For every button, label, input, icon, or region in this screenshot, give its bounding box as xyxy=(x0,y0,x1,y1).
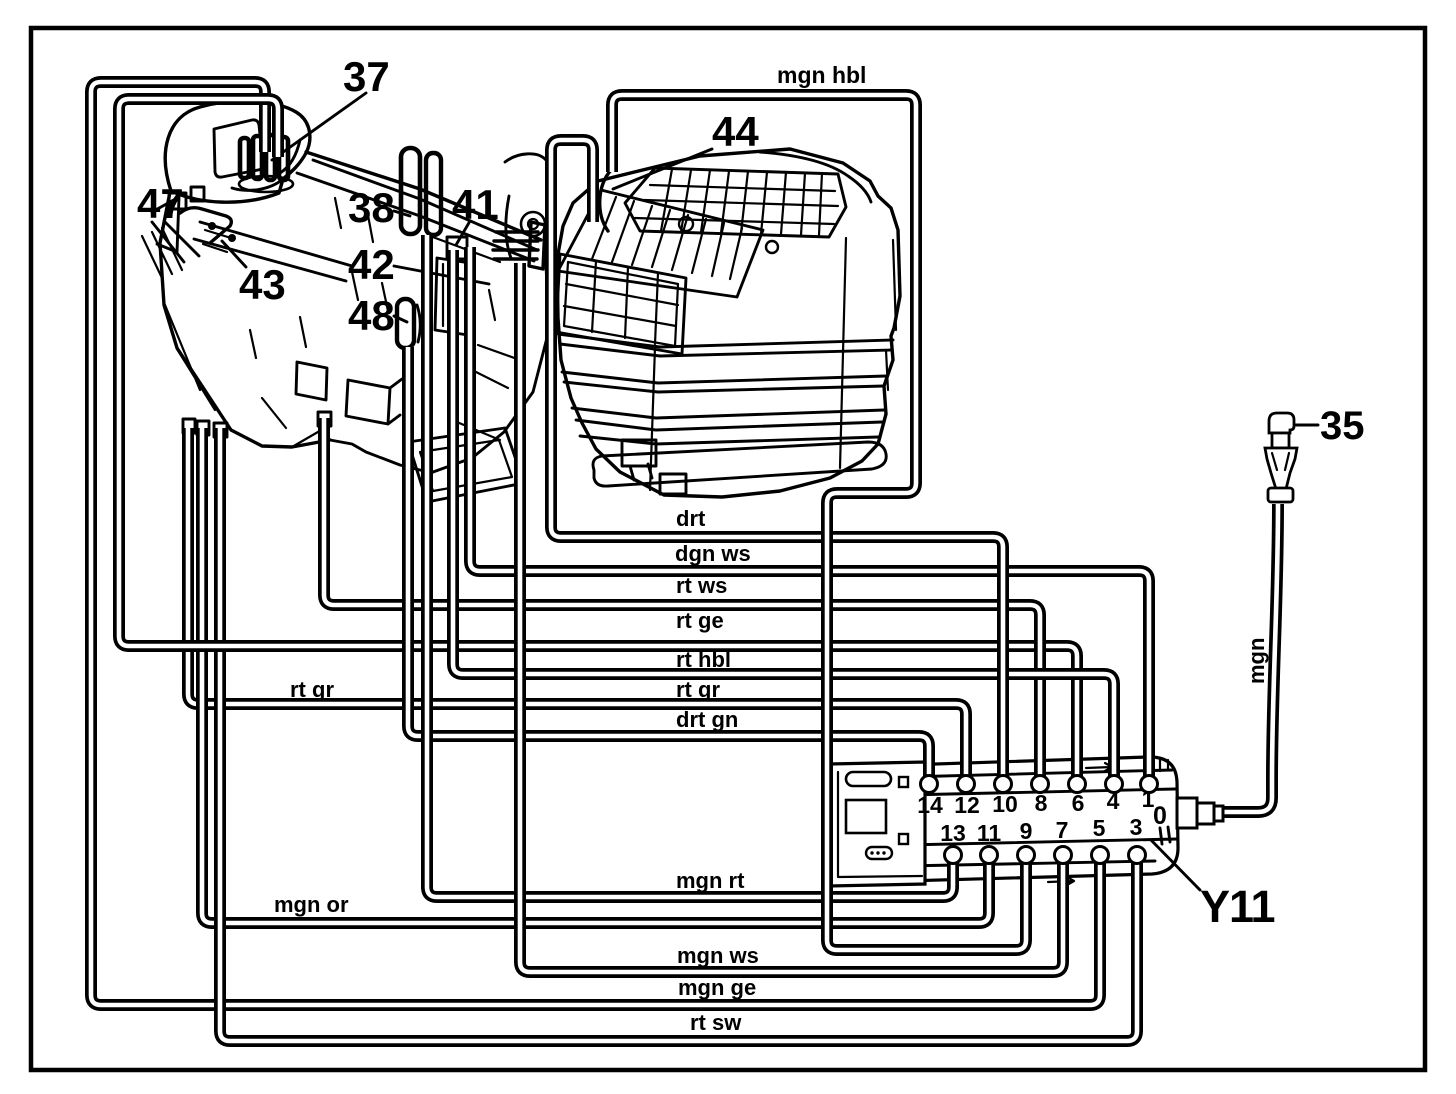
pod 42 (stacked plates) xyxy=(493,232,538,259)
body right contour xyxy=(433,244,549,472)
leader 44 xyxy=(613,149,712,189)
wire drt: AC hook at x=593 up over arc to x=551, down to row y=537, to port 10 xyxy=(551,140,1003,786)
svg-text:drt: drt xyxy=(676,506,706,531)
svg-text:rt gr: rt gr xyxy=(290,677,334,702)
wire mgn ge: fitting 37 over top-left loop, down left side x=91, row y=1005, to port 5 xyxy=(91,82,1100,1005)
AC unit illustration (item 44) xyxy=(556,149,900,497)
valve block Y11 body xyxy=(829,757,1178,886)
wire mgn or: heater fitting down x=202 to row y=923, to Y11 port 11 xyxy=(202,428,989,923)
Y11 left connector box xyxy=(829,762,925,886)
foot bar xyxy=(593,442,886,486)
small fittings for 47/43 xyxy=(183,419,227,437)
pod 41 bracket xyxy=(447,237,467,259)
svg-text:41: 41 xyxy=(452,181,499,228)
hump inner mouth xyxy=(232,140,300,190)
leader 38 xyxy=(394,211,410,216)
svg-text:14: 14 xyxy=(917,792,943,818)
svg-text:11: 11 xyxy=(977,820,1002,846)
wire rt hbl: pod 41 down x=453 to row y=674, to port 4 xyxy=(453,250,1114,786)
svg-text:drt gn: drt gn xyxy=(676,707,738,732)
hump window xyxy=(214,120,263,177)
svg-text:mgn: mgn xyxy=(1244,638,1269,684)
body outline left side xyxy=(160,192,330,447)
top grid (evaporator) xyxy=(625,168,846,237)
body ribs xyxy=(558,334,893,356)
Y11 bottom port rings 13 11 9 7 5 3 xyxy=(945,847,1146,864)
wire mgn: from Y11 right plug to check valve 35 xyxy=(1222,504,1278,812)
check valve 35 xyxy=(1265,413,1318,502)
heater unit illustration (items 37,38,41,42,43,47,48) xyxy=(142,93,549,502)
svg-text:rt sw: rt sw xyxy=(690,1010,742,1035)
leader 43 xyxy=(222,241,246,267)
svg-text:44: 44 xyxy=(712,108,759,155)
svg-text:mgn or: mgn or xyxy=(274,892,349,917)
bottom bracket / flap frame xyxy=(408,428,524,502)
svg-text:48: 48 xyxy=(348,292,395,339)
svg-text:47: 47 xyxy=(137,180,184,227)
svg-text:Y11: Y11 xyxy=(1200,881,1275,932)
small cubes bottom xyxy=(296,362,327,400)
wire mgn rt: pod 38 down x=427 to row y=897, to port 13 xyxy=(427,235,953,897)
leaders 47 xyxy=(152,221,199,262)
svg-text:rt ge: rt ge xyxy=(676,608,724,633)
svg-text:8: 8 xyxy=(1035,790,1048,816)
Y11 port numbers top row xyxy=(917,786,1154,818)
wire rt gr: heater fitting down x=188 to row y=704, to Y11 port 12 xyxy=(188,428,966,786)
svg-text:10: 10 xyxy=(992,791,1018,817)
blower hump outline xyxy=(165,101,310,202)
svg-text:rt ws: rt ws xyxy=(676,573,727,598)
svg-text:rt gr: rt gr xyxy=(676,677,720,702)
leader line Y11 xyxy=(1151,840,1200,890)
Y11 right plug connector xyxy=(1177,798,1223,828)
svg-text:3: 3 xyxy=(1130,814,1143,840)
wire drt gn: pod 48 down x=408 to row y=736, to port 14 xyxy=(408,347,929,786)
Y11 top port rings 14 12 10 8 6 4 1 xyxy=(921,776,1158,793)
Y11 port numbers bottom row xyxy=(940,814,1142,846)
pod 38 (double D shapes) xyxy=(401,148,420,234)
pod 48 xyxy=(397,299,414,348)
svg-text:mgn rt: mgn rt xyxy=(676,868,745,893)
louver band xyxy=(558,190,763,297)
svg-text:dgn ws: dgn ws xyxy=(675,541,751,566)
wire dgn ws: pod 41 down x=470 to row y=571, to port 1 xyxy=(470,247,1149,786)
svg-text:4: 4 xyxy=(1107,788,1120,814)
body top diagonals xyxy=(306,152,541,240)
svg-text:43: 43 xyxy=(239,261,286,308)
svg-text:13: 13 xyxy=(940,820,966,846)
left flap xyxy=(152,197,179,252)
small flow arrows on block xyxy=(1086,763,1112,771)
leader 42 xyxy=(394,266,489,284)
svg-text:6: 6 xyxy=(1072,790,1085,816)
wire rt sw: heater fitting down x=220 to row y=1041, to port 3 xyxy=(220,428,1137,1041)
svg-text:9: 9 xyxy=(1020,818,1033,844)
latches xyxy=(622,440,656,480)
pocket rectangle xyxy=(435,258,470,335)
fitting 37 nipples xyxy=(240,135,288,180)
svg-text:0: 0 xyxy=(1153,802,1167,830)
extra heater panel seams xyxy=(352,236,520,440)
svg-text:5: 5 xyxy=(1093,815,1106,841)
wire rt ws: heater down x=324 to row y=605, to port 8 xyxy=(324,418,1040,786)
svg-text:mgn hbl: mgn hbl xyxy=(777,62,866,88)
svg-text:42: 42 xyxy=(348,241,395,288)
leader 48 xyxy=(394,316,407,322)
outer contour xyxy=(557,149,900,497)
leader 37 xyxy=(272,93,366,160)
svg-text:12: 12 xyxy=(954,792,980,818)
svg-text:37: 37 xyxy=(343,53,390,100)
svg-text:35: 35 xyxy=(1320,404,1365,448)
svg-text:mgn ge: mgn ge xyxy=(678,975,756,1000)
leader 41 xyxy=(456,221,470,245)
wire mgn ws: pod 42 down x=520 to row y=967, to port 7 xyxy=(520,263,1063,972)
mesh panel xyxy=(556,254,686,354)
crescent hook near box left wall xyxy=(600,170,611,231)
wire mgn hbl: box around AC unit, right wall down, jog left, leg x=831 down to row y=950, to port 9 xyxy=(612,95,1026,950)
wire rt ge: fitting 37 over second top loop, down x=119 to row y=642, to port 6 xyxy=(119,99,1077,786)
svg-text:rt hbl: rt hbl xyxy=(676,647,731,672)
svg-text:mgn ws: mgn ws xyxy=(677,943,759,968)
top lid fold right xyxy=(760,152,871,202)
svg-text:38: 38 xyxy=(348,184,395,231)
heater right-end details xyxy=(521,212,545,236)
inner seams xyxy=(165,305,330,447)
svg-text:7: 7 xyxy=(1056,817,1069,843)
